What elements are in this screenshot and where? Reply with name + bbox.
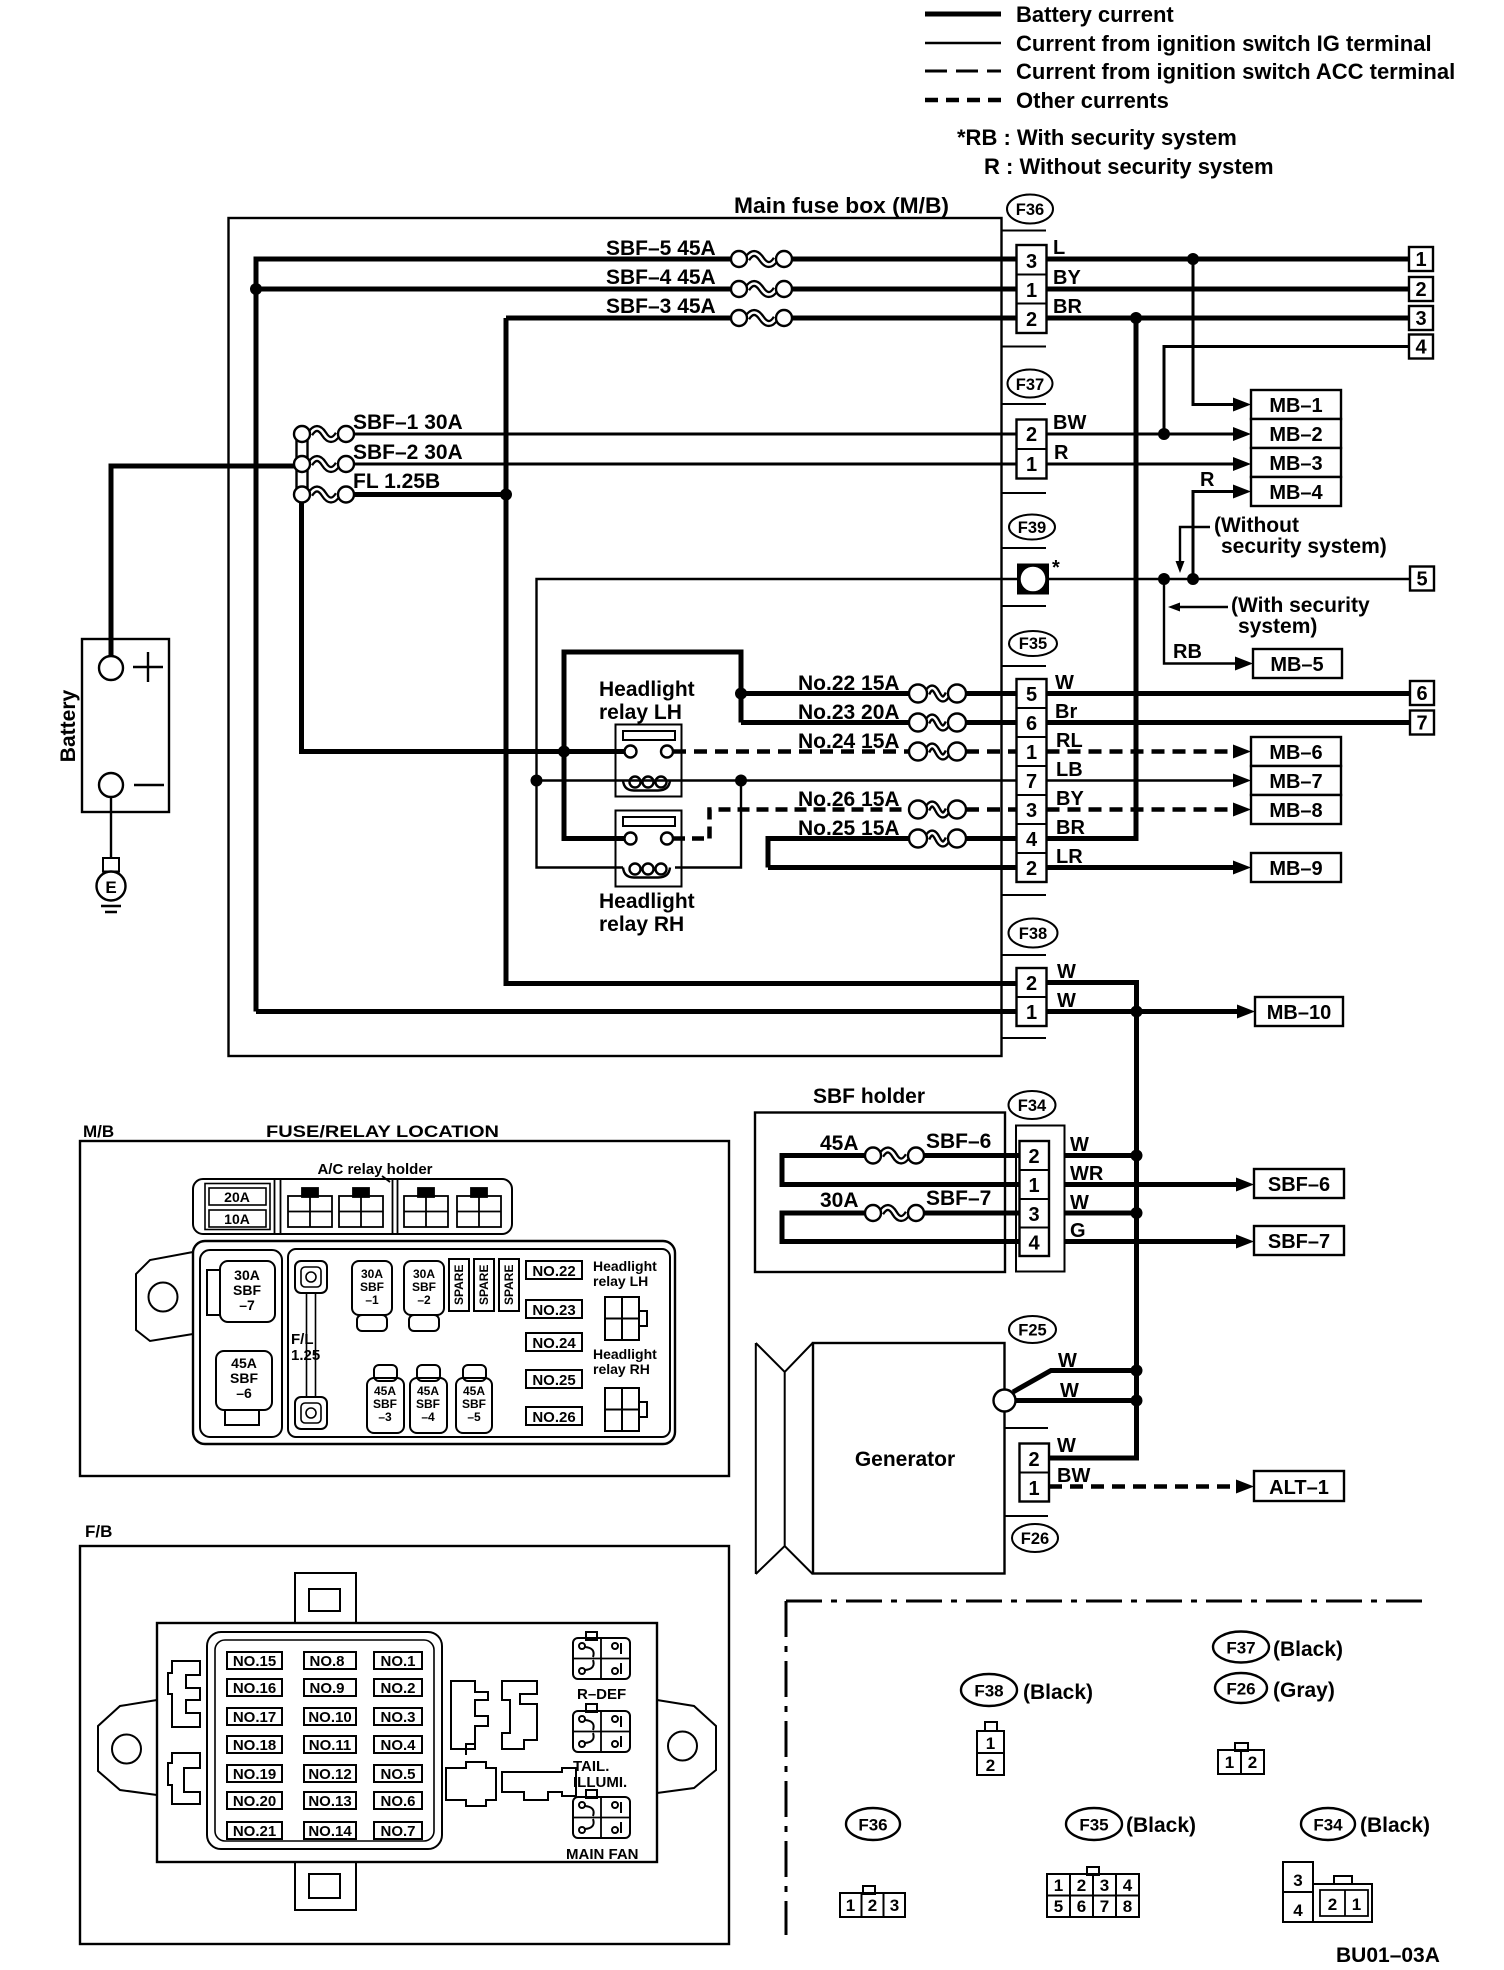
svg-text:E: E: [105, 878, 116, 897]
svg-text:NO.9: NO.9: [309, 1680, 344, 1697]
svg-text:No.23 20A: No.23 20A: [798, 701, 900, 724]
svg-text:F35: F35: [1019, 635, 1047, 653]
svg-text:45A: 45A: [463, 1384, 485, 1398]
svg-text:SBF–7: SBF–7: [926, 1187, 991, 1210]
wire No.24 dashed from relay LH contact: [673, 749, 909, 754]
left connector lower: [168, 1753, 200, 1804]
svg-text:relay RH: relay RH: [599, 913, 684, 936]
svg-text:F/L: F/L: [291, 1331, 314, 1348]
svg-text:1: 1: [846, 1896, 855, 1915]
svg-text:MB–6: MB–6: [1269, 742, 1322, 764]
legend: other currents line sample: [925, 88, 1169, 113]
wire FL bus down to F38 pin 2 feed: [506, 495, 1017, 984]
wire FL output to SBF-3 feed: [354, 318, 506, 495]
wire main bus vertical right side: [1049, 1012, 1137, 1459]
svg-text:MB–9: MB–9: [1269, 858, 1322, 880]
svg-text:F34: F34: [1018, 1097, 1047, 1115]
inner fuse panel: [207, 1632, 442, 1849]
svg-text:3: 3: [1100, 1876, 1109, 1895]
wire relay feed vertical to No.22/23 and relay RH: [564, 652, 741, 839]
wire LR F35 pin2 to MB-9: [1047, 865, 1237, 870]
svg-text:SBF–6: SBF–6: [926, 1130, 991, 1153]
wire battery positive bus to fuse bank: [111, 466, 294, 656]
fuse SBF-6 45A: [820, 1130, 991, 1164]
junction MB-10 row: [1131, 1006, 1143, 1018]
wire LB row relay coils to F35 pin 7: [537, 779, 1017, 781]
wire LB F35 pin7 to MB-7: [1047, 779, 1237, 781]
svg-text:SPARE: SPARE: [477, 1265, 491, 1305]
svg-text:Headlight: Headlight: [599, 890, 695, 913]
svg-text:F26: F26: [1021, 1530, 1049, 1548]
svg-text:5: 5: [1026, 684, 1037, 706]
svg-text:NO.8: NO.8: [309, 1653, 344, 1670]
node ALT-1: [1236, 1471, 1344, 1501]
svg-text:Headlight: Headlight: [593, 1258, 657, 1274]
svg-text:BW: BW: [1057, 1465, 1090, 1487]
svg-text:F38: F38: [1019, 925, 1047, 943]
legend: IG terminal current line sample: [925, 31, 1432, 56]
middle connector C: [466, 1744, 475, 1755]
connector F38 pinout label: [961, 1674, 1093, 1706]
svg-text:No.24 15A: No.24 15A: [798, 730, 900, 753]
connector F35: [1002, 631, 1086, 895]
svg-text:NO.2: NO.2: [380, 1680, 415, 1697]
svg-text:30A: 30A: [413, 1267, 435, 1281]
svg-text:*RB : With security system: *RB : With security system: [957, 125, 1237, 150]
svg-text:45A: 45A: [231, 1355, 257, 1371]
svg-text:4: 4: [1026, 829, 1038, 851]
svg-text:(Black): (Black): [1126, 1814, 1196, 1837]
svg-text:4: 4: [1293, 1901, 1303, 1920]
fuse No.22 15A: [798, 672, 966, 703]
svg-text:SBF: SBF: [233, 1282, 261, 1298]
output square 7: [1410, 711, 1434, 735]
svg-text:Headlight: Headlight: [593, 1346, 657, 1362]
wire W row F38 pin2 to MB-10 vertical: [1047, 983, 1137, 1012]
connector F37 pinout label: [1213, 1632, 1343, 1663]
svg-text:SBF–3 45A: SBF–3 45A: [606, 295, 716, 318]
svg-text:NO.5: NO.5: [380, 1766, 415, 1783]
svg-text:2: 2: [1028, 1146, 1039, 1168]
security note with: [1168, 594, 1370, 638]
connector F26: [1006, 1428, 1091, 1552]
F/L 1.25 link: [295, 1261, 327, 1293]
svg-text:45A: 45A: [417, 1384, 439, 1398]
wire security line from relay coils to F39 and square 5: [537, 579, 1410, 781]
wire No.22 output W row to square 6: [966, 691, 1409, 696]
wire SBF-5 feed vertical from F38 pin1 row: [256, 259, 731, 1012]
svg-text:Br: Br: [1055, 701, 1077, 723]
connector F26 pinout label: [1215, 1673, 1335, 1703]
svg-text:NO.22: NO.22: [532, 1263, 575, 1280]
connector F36: [1002, 195, 1083, 347]
svg-text:NO.13: NO.13: [308, 1793, 351, 1810]
wire No.23 fuse feed: [741, 720, 909, 725]
junction BR row: [1130, 312, 1142, 324]
svg-text:F37: F37: [1016, 376, 1044, 394]
svg-text:RL: RL: [1056, 730, 1083, 752]
junction generator W upper: [1131, 1365, 1143, 1377]
svg-text:2: 2: [1026, 973, 1037, 995]
fuse No.23 20A: [798, 701, 966, 732]
junction F34 pin3 bus: [1131, 1207, 1143, 1219]
wire generator W output straight: [1016, 1398, 1137, 1403]
svg-text:7: 7: [1026, 771, 1037, 793]
svg-text:F/B: F/B: [85, 1522, 112, 1541]
svg-text:NO.10: NO.10: [308, 1709, 351, 1726]
output square 2: [1409, 277, 1433, 301]
relay R-DEF: [573, 1632, 630, 1703]
top tab: [295, 1573, 356, 1623]
junction security line right: [1187, 573, 1199, 585]
fuse NO.22: [526, 1261, 582, 1279]
fuse grid column 1: [227, 1652, 282, 1840]
connector F34 pinout label: [1301, 1808, 1430, 1840]
node MB-8: [1233, 795, 1341, 824]
M/B body: [193, 1241, 675, 1444]
svg-text:R : Without security system: R : Without security system: [984, 154, 1274, 179]
svg-text:Battery: Battery: [57, 690, 80, 763]
fuse FL 1.25B fusible link: [294, 470, 440, 503]
45A SBF-4 unit: [417, 1365, 440, 1381]
svg-text:(Without: (Without: [1214, 514, 1299, 537]
svg-text:F25: F25: [1018, 1322, 1046, 1340]
node MB-2: [1233, 419, 1341, 448]
svg-text:LB: LB: [1056, 759, 1083, 781]
svg-text:45A: 45A: [820, 1132, 859, 1155]
fuse grid column 2: [304, 1652, 356, 1840]
lower middle connector E: [502, 1768, 576, 1800]
wire FL bus down to relay feed row: [302, 500, 565, 752]
svg-text:1: 1: [1026, 454, 1037, 476]
wire No.25 feed elbow from LR row: [768, 839, 1017, 868]
svg-text:–5: –5: [467, 1410, 481, 1424]
svg-text:10A: 10A: [224, 1211, 250, 1227]
svg-text:No.22 15A: No.22 15A: [798, 672, 900, 695]
svg-text:relay RH: relay RH: [593, 1361, 650, 1377]
svg-text:3: 3: [1026, 800, 1037, 822]
svg-text:4: 4: [1123, 1876, 1133, 1895]
fuse No.26 15A: [798, 788, 966, 819]
wire F34 pin2 W to main bus: [1065, 1153, 1137, 1158]
svg-text:NO.7: NO.7: [380, 1823, 415, 1840]
svg-text:3: 3: [890, 1896, 899, 1915]
headlight relay LH: [599, 678, 695, 797]
svg-text:R: R: [1054, 442, 1069, 464]
svg-text:W: W: [1055, 672, 1074, 694]
wire SBF-2 output R row to F37 pin 1: [354, 463, 1017, 466]
svg-text:*: *: [1052, 557, 1060, 579]
wire F34 pin4 G to SBF-7: [1065, 1239, 1240, 1244]
svg-text:A/C relay holder: A/C relay holder: [317, 1161, 432, 1178]
right ear: [657, 1700, 716, 1793]
svg-text:SPARE: SPARE: [452, 1265, 466, 1305]
junction L row: [1187, 253, 1199, 265]
connector F36 pinout drawing: [840, 1886, 905, 1917]
F/B body: [157, 1623, 657, 1862]
svg-text:SBF: SBF: [230, 1370, 258, 1386]
svg-text:MB–4: MB–4: [1269, 482, 1323, 504]
connector F35 pinout drawing: [1047, 1867, 1139, 1917]
svg-text:MB–3: MB–3: [1269, 453, 1322, 475]
svg-text:NO.11: NO.11: [309, 1737, 352, 1754]
svg-text:6: 6: [1077, 1897, 1086, 1916]
30A SBF-1 unit: [352, 1261, 392, 1315]
legend: ACC terminal current line sample: [925, 59, 1455, 84]
svg-text:NO.16: NO.16: [233, 1680, 276, 1697]
node SBF-7: [1236, 1226, 1344, 1255]
junction FL output: [500, 489, 512, 501]
output square 6: [1410, 681, 1434, 705]
svg-text:2: 2: [1026, 309, 1037, 331]
wire SBF-4 row to F38 pin 1: [256, 1009, 1017, 1014]
svg-text:1: 1: [1054, 1876, 1063, 1895]
wire square 4 branch from BW row: [1164, 347, 1409, 435]
wire F38 pin1 to MB-10: [1047, 1009, 1241, 1014]
wire No.23 output Br row to square 7: [966, 720, 1409, 725]
node MB-7: [1233, 766, 1341, 795]
svg-text:5: 5: [1416, 569, 1427, 591]
connector F37: [1002, 370, 1087, 494]
svg-text:(Gray): (Gray): [1273, 1679, 1335, 1702]
wire No.24 output dashed to F35 pin 1: [966, 749, 1017, 754]
junction generator W lower: [1131, 1395, 1143, 1407]
svg-text:45A: 45A: [374, 1384, 396, 1398]
fuse SBF-2 30A: [294, 441, 463, 472]
svg-text:1: 1: [1026, 280, 1037, 302]
svg-text:No.26 15A: No.26 15A: [798, 788, 900, 811]
svg-text:BR: BR: [1056, 817, 1085, 839]
battery B1: [57, 639, 169, 812]
svg-text:F36: F36: [1016, 201, 1044, 219]
svg-text:1: 1: [986, 1734, 995, 1753]
main fuse box M/B outline: [229, 193, 1002, 1056]
svg-text:NO.25: NO.25: [532, 1372, 575, 1389]
left mounting ear: [136, 1252, 193, 1341]
svg-text:SBF: SBF: [373, 1397, 397, 1411]
svg-text:R: R: [1200, 469, 1215, 491]
connector F25: [1009, 1316, 1056, 1343]
svg-text:BY: BY: [1053, 267, 1081, 289]
wire RB branch down to MB-5: [1164, 579, 1236, 664]
svg-text:20A: 20A: [224, 1189, 250, 1205]
junction No.22 feed: [735, 688, 747, 700]
svg-text:1: 1: [1026, 742, 1037, 764]
svg-text:F38: F38: [974, 1682, 1003, 1701]
svg-text:MB–1: MB–1: [1269, 395, 1322, 417]
svg-text:SBF–6: SBF–6: [1268, 1174, 1330, 1196]
svg-text:MB–7: MB–7: [1269, 771, 1322, 793]
svg-text:NO.18: NO.18: [233, 1737, 276, 1754]
generator: [756, 1343, 1005, 1574]
wire relay RH coil branch: [537, 781, 742, 868]
fuse SBF-5 45A: [606, 237, 792, 267]
junction security line left: [1158, 573, 1170, 585]
svg-text:F39: F39: [1018, 519, 1046, 537]
output square 5: [1410, 567, 1434, 591]
output square 4: [1409, 335, 1433, 359]
svg-text:W: W: [1070, 1192, 1089, 1214]
svg-text:SBF–2 30A: SBF–2 30A: [353, 441, 463, 464]
wire fuse bank left bus: [297, 430, 308, 499]
svg-text:SPARE: SPARE: [502, 1265, 516, 1305]
svg-text:NO.1: NO.1: [380, 1653, 415, 1670]
wire BY row SBF-4 output to square 2: [792, 287, 1409, 292]
junction relay feed: [558, 746, 570, 758]
svg-text:NO.14: NO.14: [308, 1823, 352, 1840]
svg-text:4: 4: [1415, 337, 1427, 359]
fuse NO.25: [526, 1370, 582, 1388]
svg-text:3: 3: [1293, 1871, 1302, 1890]
wire SBF-4 feed: [256, 287, 731, 292]
svg-text:F35: F35: [1079, 1816, 1108, 1835]
svg-text:NO.17: NO.17: [233, 1709, 276, 1726]
fuse SBF-1 30A: [294, 411, 463, 442]
connector F26 pinout drawing: [1218, 1743, 1264, 1774]
fuse grid column 3: [374, 1652, 422, 1840]
svg-text:7: 7: [1100, 1897, 1109, 1916]
wire battery negative to ground: [110, 797, 112, 858]
wire SBF-6 loop in holder: [782, 1156, 1020, 1185]
svg-text:W: W: [1057, 961, 1076, 983]
svg-text:SBF: SBF: [412, 1280, 436, 1294]
svg-text:1: 1: [1415, 249, 1426, 271]
svg-text:3: 3: [1028, 1204, 1039, 1226]
svg-text:SBF–1 30A: SBF–1 30A: [353, 411, 463, 434]
svg-text:30A: 30A: [820, 1189, 859, 1212]
svg-text:–1: –1: [365, 1293, 379, 1307]
svg-text:(Black): (Black): [1360, 1814, 1430, 1837]
svg-text:1: 1: [1026, 1002, 1037, 1024]
svg-text:2: 2: [1328, 1895, 1337, 1914]
svg-text:SBF–7: SBF–7: [1268, 1231, 1330, 1253]
svg-text:2: 2: [1028, 1449, 1039, 1471]
wire BY dashed F35 pin3 to MB-8: [1047, 807, 1241, 812]
svg-text:TAIL.: TAIL.: [573, 1758, 609, 1775]
svg-text:R–DEF: R–DEF: [577, 1686, 626, 1703]
connector F34 pinout drawing: [1283, 1862, 1372, 1922]
junction SBF-4 feed: [250, 283, 262, 295]
A/C relay holder box: [193, 1179, 512, 1234]
wire F34 pin1 WR to SBF-6: [1065, 1182, 1240, 1187]
bottom tab: [295, 1862, 356, 1910]
30A SBF-7 unit: [220, 1261, 275, 1322]
svg-text:2: 2: [986, 1756, 995, 1775]
svg-text:MB–5: MB–5: [1270, 654, 1323, 676]
fuse SBF-4 45A: [606, 266, 792, 297]
spare fuses: [449, 1259, 469, 1311]
node MB-9: [1233, 853, 1341, 882]
svg-text:Battery current: Battery current: [1016, 2, 1174, 27]
SBF holder box: [755, 1085, 1005, 1272]
fuse NO.23: [526, 1300, 582, 1318]
security note without: [1176, 514, 1387, 573]
output square 1: [1409, 247, 1433, 271]
legend: battery current line sample: [925, 2, 1174, 27]
connector F39 with security pin: [1002, 515, 1061, 607]
svg-text:No.25 15A: No.25 15A: [798, 817, 900, 840]
svg-text:L: L: [1053, 237, 1065, 259]
svg-text:Main fuse box (M/B): Main fuse box (M/B): [734, 193, 949, 218]
svg-text:W: W: [1060, 1380, 1079, 1402]
svg-text:WR: WR: [1070, 1163, 1104, 1185]
svg-text:6: 6: [1416, 683, 1427, 705]
junction F34 pin2 bus: [1131, 1150, 1143, 1162]
svg-text:6: 6: [1026, 713, 1037, 735]
node SBF-6: [1236, 1169, 1344, 1198]
ground E: [97, 858, 126, 912]
svg-text:1.25: 1.25: [291, 1347, 320, 1364]
svg-text:8: 8: [1123, 1897, 1132, 1916]
svg-text:–7: –7: [239, 1297, 255, 1313]
fuse No.24 15A: [798, 730, 966, 761]
45A SBF-5 unit: [463, 1365, 486, 1381]
svg-text:1: 1: [1028, 1478, 1039, 1500]
connector F35 pinout label: [1066, 1808, 1196, 1840]
wire L row branch down to MB-1: [1193, 259, 1236, 405]
svg-text:FUSE/RELAY LOCATION: FUSE/RELAY LOCATION: [266, 1122, 499, 1141]
svg-text:SBF: SBF: [416, 1397, 440, 1411]
wire L row SBF-5 output to square 1: [792, 257, 1409, 262]
lower middle connector D: [446, 1762, 496, 1806]
svg-text:BR: BR: [1053, 296, 1082, 318]
node MB-6: [1233, 737, 1341, 766]
svg-text:–6: –6: [236, 1385, 252, 1401]
svg-text:2: 2: [1077, 1876, 1086, 1895]
svg-text:NO.24: NO.24: [532, 1335, 576, 1352]
svg-text:NO.19: NO.19: [233, 1766, 276, 1783]
node MB-10: [1237, 997, 1343, 1026]
wire generator W output diagonal: [1013, 1371, 1137, 1393]
svg-text:SBF: SBF: [360, 1280, 384, 1294]
relay MAIN FAN: [566, 1790, 639, 1863]
chain line border bottom right: [786, 1600, 1430, 1603]
svg-text:relay LH: relay LH: [593, 1273, 648, 1289]
svg-text:ALT–1: ALT–1: [1269, 1477, 1329, 1499]
connector F34: [1009, 1091, 1104, 1272]
M/B fuse relay location drawing: [80, 1122, 729, 1476]
svg-text:F26: F26: [1226, 1680, 1255, 1699]
fuse NO.24: [526, 1333, 582, 1351]
svg-text:MB–2: MB–2: [1269, 424, 1322, 446]
svg-text:–2: –2: [417, 1293, 431, 1307]
svg-text:–3: –3: [378, 1410, 392, 1424]
svg-text:1: 1: [1352, 1895, 1361, 1914]
wire SBF-7 loop in holder: [782, 1213, 1020, 1242]
svg-text:Headlight: Headlight: [599, 678, 695, 701]
svg-text:(With security: (With security: [1231, 594, 1370, 617]
svg-text:BU01–03A: BU01–03A: [1336, 1944, 1440, 1967]
wire F26 pin1 BW dashed to ALT-1: [1049, 1484, 1243, 1489]
svg-text:FL 1.25B: FL 1.25B: [353, 470, 440, 493]
svg-text:2: 2: [1248, 1753, 1257, 1772]
svg-text:relay LH: relay LH: [599, 701, 682, 724]
svg-text:1: 1: [1225, 1753, 1234, 1772]
svg-text:W: W: [1058, 1350, 1077, 1372]
svg-text:system): system): [1238, 615, 1317, 638]
30A SBF-2 unit: [404, 1261, 444, 1315]
svg-text:F37: F37: [1226, 1639, 1255, 1658]
left ear: [98, 1700, 157, 1795]
relay TAIL ILLUMI: [573, 1704, 630, 1791]
node MB-4: [1233, 477, 1341, 506]
wire No.22 fuse feed: [741, 691, 909, 696]
connector F38 pinout drawing: [977, 1722, 1004, 1775]
middle connector A: [451, 1681, 488, 1749]
svg-text:MB–10: MB–10: [1267, 1002, 1331, 1024]
output square 3: [1409, 306, 1433, 330]
wire F34 pin3 W to main bus: [1065, 1211, 1137, 1216]
